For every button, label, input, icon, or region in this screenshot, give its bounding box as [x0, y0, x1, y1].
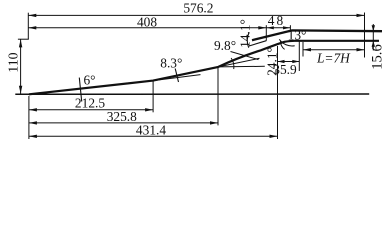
- wire: lip-height step line: [18, 38, 29, 40]
- svg-text:48: 48: [268, 13, 285, 28]
- wire: 9.8-deg leader: [231, 52, 259, 60]
- wire: 9.8-deg horizontal reference ray: [218, 65, 264, 68]
- svg-text:431.4: 431.4: [136, 123, 166, 138]
- node: 9.8-deg angle arc: [231, 58, 234, 69]
- svg-text:9.8°: 9.8°: [214, 38, 236, 53]
- svg-text:35.9: 35.9: [273, 62, 297, 77]
- svg-text:8.3°: 8.3°: [160, 55, 182, 70]
- ramp profile: [29, 41, 379, 95]
- dimension 35.9 line: [278, 61, 300, 63]
- wire: bottom-left extension: [28, 96, 30, 139]
- dimension 48 line: [266, 27, 290, 29]
- dimension 110 vertical line: [20, 39, 22, 93]
- svg-text:576.2: 576.2: [183, 0, 213, 15]
- wire: 35.9 right extension: [298, 42, 300, 72]
- dimension 212.5 line: [29, 109, 153, 111]
- svg-text:110: 110: [5, 52, 20, 72]
- svg-text:15.6: 15.6: [369, 44, 384, 70]
- dimension 408 line: [28, 27, 266, 29]
- baseline: [15, 93, 369, 95]
- node: 6-deg tick: [79, 78, 81, 102]
- svg-text:13°: 13°: [288, 27, 307, 42]
- wire: 9.8-deg extension ray (previous segment extended): [218, 58, 259, 67]
- dimension 431.4 line: [29, 135, 278, 137]
- svg-text:408: 408: [137, 15, 157, 30]
- wire: L left extension: [302, 42, 304, 57]
- cowl lip: [252, 30, 382, 40]
- svg-text:L=7H: L=7H: [316, 50, 351, 65]
- svg-text:212.5: 212.5: [75, 95, 105, 110]
- node: 8.3-deg tick: [175, 69, 178, 83]
- svg-text:14.1°: 14.1°: [237, 19, 252, 48]
- wire: station 212.5 extension: [152, 81, 154, 112]
- dimension 576.2 line: [28, 14, 364, 16]
- wire: 8.3-deg extension ray (6-deg segment extended): [153, 75, 200, 81]
- node: 14.1-deg angle arc: [247, 32, 249, 47]
- wire: 14.1-deg stub from lip tip: [249, 41, 266, 46]
- dimension L=7H line: [303, 49, 365, 51]
- dimension 325.8 line: [29, 122, 218, 124]
- svg-text:6°: 6°: [83, 72, 95, 87]
- wire: station 325.8 extension: [217, 68, 219, 126]
- wire: 48 left extension: [265, 25, 267, 41]
- wire: right extension line: [364, 13, 366, 58]
- wire: 48 right extension: [289, 25, 291, 30]
- svg-text:325.8: 325.8: [107, 109, 137, 124]
- wire: station 431.4 extension: [277, 46, 279, 139]
- wire: left top extension line: [27, 13, 29, 40]
- node: 13-deg angle arc: [279, 39, 294, 46]
- node: 24.1-deg angle arc: [280, 41, 284, 49]
- dimension 15.6 arrows: [372, 24, 374, 51]
